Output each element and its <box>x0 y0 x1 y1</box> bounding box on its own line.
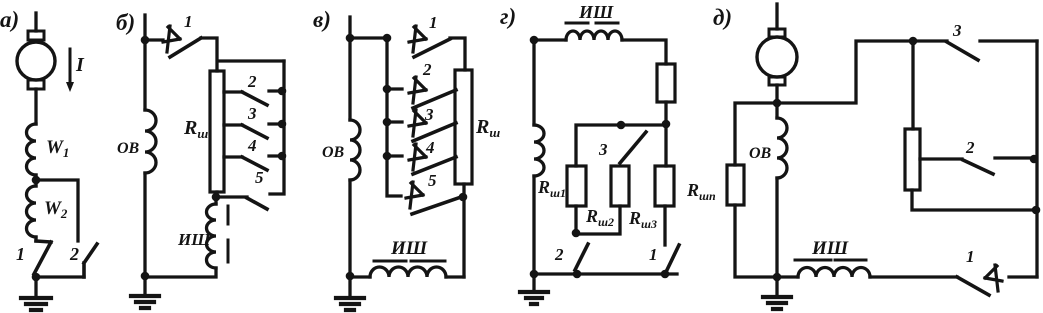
svg-text:д): д) <box>713 5 732 30</box>
svg-text:Rшп: Rшп <box>686 180 716 203</box>
svg-text:1: 1 <box>649 245 658 264</box>
svg-text:ИШ: ИШ <box>578 2 614 22</box>
svg-text:ИШ: ИШ <box>390 238 428 259</box>
svg-text:3: 3 <box>952 21 962 40</box>
svg-text:3: 3 <box>424 105 434 124</box>
svg-text:ОВ: ОВ <box>749 145 772 162</box>
svg-text:2: 2 <box>247 72 257 91</box>
svg-text:3: 3 <box>598 140 608 159</box>
svg-text:ОВ: ОВ <box>117 140 140 157</box>
svg-text:2: 2 <box>965 138 975 157</box>
svg-text:1: 1 <box>429 13 438 32</box>
svg-text:4: 4 <box>425 138 435 157</box>
svg-text:Rш: Rш <box>475 116 500 140</box>
svg-text:г): г) <box>500 4 516 29</box>
svg-text:Rш2: Rш2 <box>585 206 614 229</box>
svg-text:ИШ: ИШ <box>811 238 849 259</box>
svg-text:4: 4 <box>247 136 257 155</box>
svg-text:Rш1: Rш1 <box>537 177 566 200</box>
svg-text:1: 1 <box>966 247 975 266</box>
svg-text:2: 2 <box>69 244 79 264</box>
svg-text:1: 1 <box>16 244 25 264</box>
svg-text:3: 3 <box>247 104 257 123</box>
svg-text:I: I <box>75 54 85 76</box>
svg-text:W1: W1 <box>46 137 69 160</box>
svg-text:W2: W2 <box>44 198 68 221</box>
svg-text:ИШ: ИШ <box>177 230 211 249</box>
svg-text:б): б) <box>116 10 135 35</box>
svg-text:1: 1 <box>184 12 193 31</box>
svg-text:5: 5 <box>428 171 437 190</box>
svg-text:а): а) <box>0 7 19 32</box>
svg-text:ОВ: ОВ <box>322 144 345 161</box>
svg-text:Rш3: Rш3 <box>628 208 657 231</box>
svg-text:5: 5 <box>255 168 264 187</box>
svg-text:2: 2 <box>554 245 564 264</box>
svg-text:в): в) <box>313 7 331 32</box>
svg-text:2: 2 <box>422 60 432 79</box>
svg-text:Rш: Rш <box>183 117 208 141</box>
